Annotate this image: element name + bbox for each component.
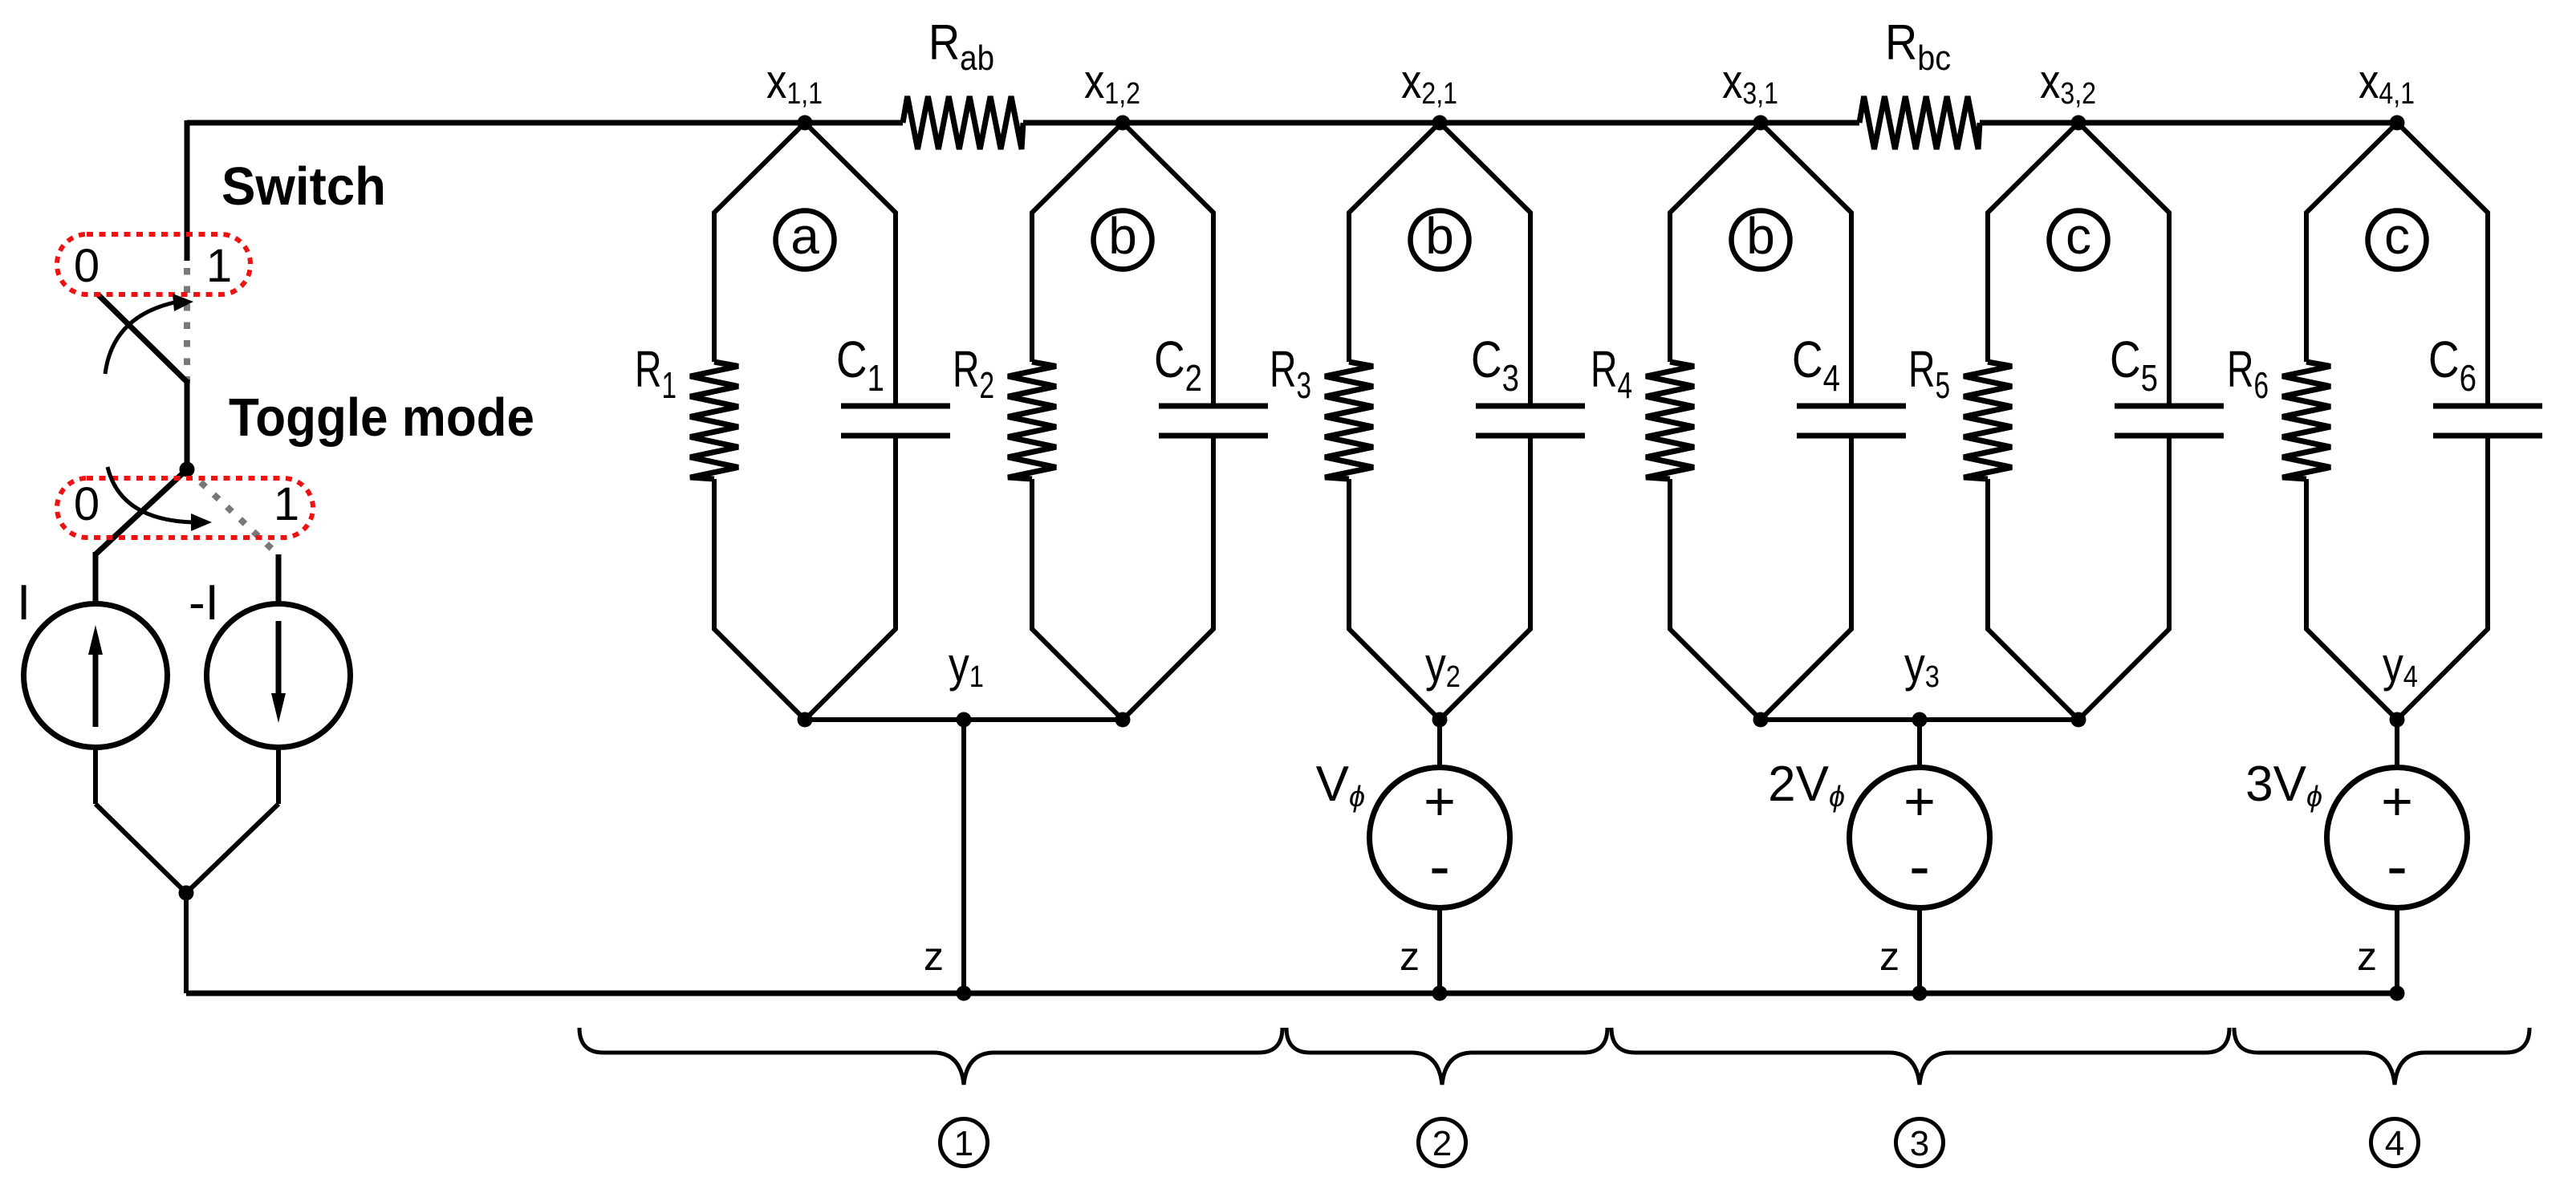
resistor R5	[1908, 340, 2012, 479]
node branch 1 apex	[798, 712, 813, 728]
capacitor C6	[2428, 331, 2542, 436]
svg-text:I: I	[17, 575, 30, 631]
label 3V phi	[2245, 757, 2322, 813]
capacitor C5	[2110, 331, 2224, 436]
wire y3 to source 2V	[1917, 720, 1922, 768]
svg-text:b: b	[1425, 207, 1454, 265]
node x3,2	[2040, 55, 2096, 131]
branch label b	[1732, 207, 1790, 270]
wire group 3 bottom	[1761, 717, 2078, 722]
label Switch	[221, 156, 386, 217]
svg-text:+: +	[1424, 771, 1456, 832]
wire current sources to ground junction	[95, 746, 278, 893]
node y4	[2383, 638, 2418, 728]
svg-text:z: z	[1879, 934, 1899, 979]
wire right throw to -I source	[276, 554, 282, 603]
svg-text:Toggle mode: Toggle mode	[229, 388, 534, 448]
capacitor C4	[1792, 331, 1906, 436]
svg-text:1: 1	[206, 240, 232, 292]
svg-text:0: 0	[74, 240, 100, 292]
wire branch 5 left side	[1988, 123, 2078, 720]
svg-text:b: b	[1746, 207, 1775, 265]
label Toggle mode	[229, 388, 534, 448]
switch toggle arrow (upper)	[105, 294, 193, 374]
switch throw box 0/1 (upper)	[57, 234, 250, 294]
switch lower blade (pole at 0)	[95, 469, 187, 603]
label I	[17, 575, 30, 631]
node x3,1	[1722, 55, 1778, 131]
label 2V phi	[1768, 757, 1845, 813]
brace group 4	[2234, 1028, 2529, 1085]
wire group 1 bottom	[805, 717, 1123, 722]
label z (group 1)	[924, 934, 944, 979]
switch pivot node	[180, 462, 195, 477]
resistor R1	[635, 340, 738, 479]
resistor R2	[953, 340, 1056, 479]
svg-text:-I: -I	[189, 575, 219, 631]
wire branch 4 right side	[1761, 123, 1851, 720]
svg-text:1: 1	[274, 478, 299, 530]
svg-text:Switch: Switch	[221, 156, 386, 217]
switch throw box 0/1 (lower)	[57, 478, 313, 538]
switch upper blade (pole at 0)	[98, 294, 187, 469]
brace group 3	[1611, 1028, 2229, 1085]
svg-text:z: z	[1400, 934, 1420, 979]
wire top bus	[187, 120, 2397, 261]
node y2	[1425, 638, 1461, 728]
resistor R3	[1270, 340, 1373, 479]
junction node below sources	[179, 886, 194, 901]
svg-text:-: -	[2387, 830, 2407, 901]
switch toggle arrow (lower)	[108, 467, 212, 531]
wire y2 to source V	[1437, 720, 1442, 768]
node z3 on bus	[1912, 986, 1928, 1001]
label z (group 3)	[1879, 934, 1899, 979]
wire source 2V to bus	[1917, 908, 1922, 993]
node y1	[949, 638, 984, 728]
wire branch 3 left side	[1349, 123, 1440, 720]
current source -I	[207, 604, 351, 748]
svg-text:+: +	[1904, 771, 1936, 832]
resistor Rab	[903, 15, 1023, 149]
capacitor C2	[1154, 331, 1268, 436]
wire branch 4 left side	[1670, 123, 1761, 720]
label -I	[189, 575, 219, 631]
svg-text:+: +	[2381, 771, 2413, 832]
node x4,1	[2359, 55, 2415, 131]
voltage source 2V phi	[1850, 768, 1990, 908]
capacitor C1	[836, 331, 950, 436]
label 1 (upper box)	[206, 240, 232, 292]
node z2 on bus	[1432, 986, 1448, 1001]
svg-text:-: -	[1429, 830, 1450, 901]
branch label a	[776, 207, 835, 270]
branch label b	[1411, 207, 1469, 270]
node x1,1	[766, 55, 823, 131]
label 1 (lower box)	[274, 478, 299, 530]
branch label c	[2368, 207, 2427, 270]
label group 4	[2371, 1119, 2419, 1167]
branch label c	[2050, 207, 2108, 270]
wire junction to bottom bus	[184, 893, 189, 993]
svg-text:4: 4	[2385, 1124, 2404, 1163]
label z (group 2)	[1400, 934, 1420, 979]
svg-text:c: c	[2066, 207, 2091, 265]
voltage source 3V phi	[2327, 768, 2468, 908]
label group 3	[1896, 1119, 1944, 1167]
wire branch 1 left side	[714, 123, 805, 720]
brace group 2	[1286, 1028, 1607, 1085]
svg-text:2: 2	[1432, 1124, 1452, 1163]
svg-text:a: a	[790, 207, 819, 265]
node branch 4 apex	[1753, 712, 1769, 728]
node x2,1	[1401, 55, 1457, 131]
node z1 on bus	[957, 986, 972, 1001]
wire branch 6 right side	[2397, 123, 2488, 720]
resistor R4	[1591, 340, 1694, 479]
svg-text:z: z	[2357, 934, 2377, 979]
branch label b	[1094, 207, 1152, 270]
label z (group 4)	[2357, 934, 2377, 979]
svg-text:0: 0	[74, 478, 100, 530]
wire source 3V to bus	[2395, 908, 2399, 993]
wire y4 to source 3V	[2395, 720, 2399, 768]
node z4 on bus	[2390, 986, 2405, 1001]
resistor Rbc	[1859, 15, 1980, 149]
label group 2	[1419, 1119, 1466, 1167]
svg-text:c: c	[2384, 207, 2410, 265]
node x1,2	[1084, 55, 1140, 131]
wire switch dotted throw 1 (lower)	[201, 482, 276, 553]
voltage source V phi	[1370, 768, 1510, 908]
svg-text:z: z	[924, 934, 944, 979]
label group 1	[941, 1119, 988, 1167]
wire branch 6 left side	[2306, 123, 2397, 720]
wire y1 to bus	[961, 720, 966, 993]
wire branch 1 right side	[805, 123, 896, 720]
label 0 (upper box)	[74, 240, 100, 292]
capacitor C3	[1471, 331, 1585, 436]
brace group 1	[579, 1028, 1282, 1085]
wire branch 2 left side	[1032, 123, 1123, 720]
node branch 5 apex	[2071, 712, 2086, 728]
svg-text:3: 3	[1910, 1124, 1929, 1163]
wire branch 3 right side	[1440, 123, 1530, 720]
label V phi	[1316, 757, 1365, 813]
resistor R6	[2227, 340, 2330, 479]
node y3	[1904, 638, 1940, 728]
wire branch 5 right side	[2078, 123, 2169, 720]
svg-text:-: -	[1909, 830, 1930, 901]
label 0 (lower box)	[74, 478, 100, 530]
wire switch dotted throw 1 (top)	[184, 268, 190, 384]
svg-text:b: b	[1108, 207, 1137, 265]
wire source V to bus	[1437, 908, 1442, 993]
wire bottom bus	[186, 991, 2399, 996]
current source I	[24, 604, 168, 748]
wire branch 2 right side	[1123, 123, 1213, 720]
svg-text:1: 1	[954, 1124, 973, 1163]
node branch 2 apex	[1115, 712, 1131, 728]
